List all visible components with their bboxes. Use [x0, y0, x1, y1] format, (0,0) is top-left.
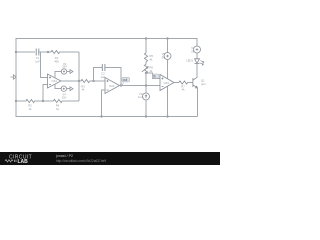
svg-text:C2: C2 — [101, 72, 105, 76]
resistor R2 — [26, 99, 35, 102]
op-amp OA1 — [48, 74, 62, 88]
svg-text:5V: 5V — [191, 49, 194, 53]
wire V2 to LED1 — [196, 53, 198, 59]
svg-text:1uF: 1uF — [35, 60, 40, 64]
transistor Q1 — [193, 77, 198, 88]
wire R7 to Q1 base — [188, 82, 193, 84]
svg-text:npn: npn — [201, 83, 206, 86]
svg-text:fb: fb — [153, 75, 156, 79]
wire bottom rail — [16, 116, 197, 118]
label R5 value — [150, 54, 154, 62]
svg-text:C1: C1 — [36, 56, 40, 60]
wire to R3 — [79, 80, 81, 82]
svg-text:LED1: LED1 — [186, 59, 193, 63]
wire R3 to OA2 minus — [90, 80, 105, 82]
junction node at 146,116.5 — [145, 115, 147, 117]
label V2 — [191, 46, 195, 53]
node flag IN — [11, 75, 17, 79]
wire right chain top — [196, 39, 198, 47]
label R7 value — [181, 84, 185, 91]
svg-text:jonast / P2: jonast / P2 — [55, 154, 73, 158]
svg-text:1mA: 1mA — [138, 95, 144, 99]
wire V4 to flag — [67, 88, 71, 90]
wire C1 to R1 — [39, 51, 51, 53]
junction node at 146,38.5 — [145, 37, 147, 39]
label V3 — [62, 62, 67, 69]
wire V3 to flag — [67, 71, 70, 73]
voltage source V2 — [194, 46, 201, 53]
junction node at 43,101 — [42, 100, 44, 102]
resistor R4 — [54, 99, 63, 102]
svg-text:400: 400 — [54, 60, 59, 64]
CircuitLab logo — [5, 155, 32, 165]
wire R5 to R6 — [145, 62, 147, 65]
svg-text:http://circuitlab.com/c/9c22a6: http://circuitlab.com/c/9c22a637de9 — [56, 159, 106, 163]
wire OA3 minus branch — [146, 73, 160, 79]
capacitor C1 — [36, 49, 39, 56]
node tag out — [122, 77, 130, 85]
wire C2 feedback branch — [94, 68, 103, 82]
wire OA1 V- pin — [55, 84, 61, 89]
LED LED1 — [195, 59, 205, 65]
junction node at 48,52 — [47, 51, 49, 53]
wire box right edge vertical — [78, 52, 80, 101]
svg-text:OA3: OA3 — [164, 81, 170, 85]
wire R5 chain from top rail — [145, 39, 147, 54]
svg-text:out: out — [123, 78, 128, 82]
resistor R5 — [144, 53, 147, 62]
label Q1 — [201, 79, 206, 86]
resistor R3 — [81, 79, 90, 82]
wire input branch y52 — [16, 51, 35, 53]
svg-text:15V: 15V — [62, 65, 67, 69]
node flag VEE — [70, 87, 73, 91]
wire OA2 output — [120, 85, 161, 87]
svg-text:R1: R1 — [55, 56, 59, 60]
wire OA1 output — [61, 80, 79, 82]
label R1 value — [54, 56, 59, 64]
svg-text:LAB: LAB — [18, 159, 29, 165]
junction node at 16,101 — [15, 100, 17, 102]
svg-text:OA1: OA1 — [52, 79, 58, 83]
wire V5 to OA3 Vplus pin — [167, 60, 169, 79]
label C2 value — [101, 72, 106, 80]
wire bottom feedback y101 — [16, 100, 26, 102]
wire OA1 V+ pin — [55, 72, 61, 78]
capacitor C2 — [102, 64, 105, 71]
junction node at 167.5,116.5 — [166, 115, 168, 117]
resistor R7 — [179, 81, 188, 84]
wire C2 to output — [105, 68, 121, 86]
junction node output — [78, 80, 80, 82]
junction node at 101.5,116.5 — [100, 115, 102, 117]
junction node at 146,73 — [145, 72, 147, 74]
label R3 value — [81, 84, 85, 91]
op-amp OA2 — [105, 78, 120, 94]
svg-text:R6: R6 — [150, 66, 154, 70]
label V5 — [162, 52, 166, 59]
label R4 value — [56, 104, 60, 111]
watermark footer bar — [0, 152, 220, 165]
label C1 value — [35, 56, 40, 64]
junction node at 93.5,81 — [92, 80, 94, 82]
resistor R1 — [51, 50, 60, 53]
wire IS1 to rail — [145, 100, 147, 117]
wire Q1 emitter to rail — [196, 88, 198, 117]
voltage source V3 — [61, 69, 66, 74]
wire R6 down through out node — [145, 73, 147, 93]
wire junction drop to OA1 minus — [41, 52, 48, 78]
voltage source V4 — [61, 86, 66, 91]
junction node at 146,85.5 — [145, 84, 147, 86]
svg-text:5V: 5V — [162, 55, 165, 59]
voltage source V5 — [164, 53, 171, 60]
wire R1 to box right edge — [60, 51, 79, 53]
node tag fb — [153, 74, 160, 79]
wire R4 to box corner — [62, 100, 79, 102]
label R6 value — [150, 66, 154, 74]
potentiometer R6 — [142, 64, 148, 73]
svg-text:15V: 15V — [62, 96, 67, 100]
current source IS1 — [143, 93, 150, 100]
junction node at 167.5,38.5 — [166, 37, 168, 39]
svg-text:R5: R5 — [150, 54, 154, 58]
label IS1 — [138, 92, 144, 99]
wire left vertical — [15, 39, 17, 117]
wire V5 from top rail — [167, 39, 169, 53]
label LED1 — [186, 59, 193, 63]
op-amp OA3 — [160, 75, 174, 91]
wire OA1 plus input — [43, 85, 48, 102]
junction node at 16,52 — [15, 51, 17, 53]
wire R2 to R4 — [35, 100, 54, 102]
svg-text:OA2: OA2 — [109, 84, 115, 88]
wire OA2 plus to ground rail — [102, 90, 106, 117]
wire OA3 Vminus pin to rail — [167, 87, 169, 117]
wire LED1 to Q1 collector — [196, 64, 198, 78]
label R2 value — [28, 104, 32, 111]
wire OA3 output — [174, 82, 179, 84]
wire top rail — [16, 38, 197, 40]
label V4 — [62, 93, 67, 100]
junction node at 121,85.5 — [120, 84, 122, 86]
node flag VCC — [70, 70, 73, 74]
